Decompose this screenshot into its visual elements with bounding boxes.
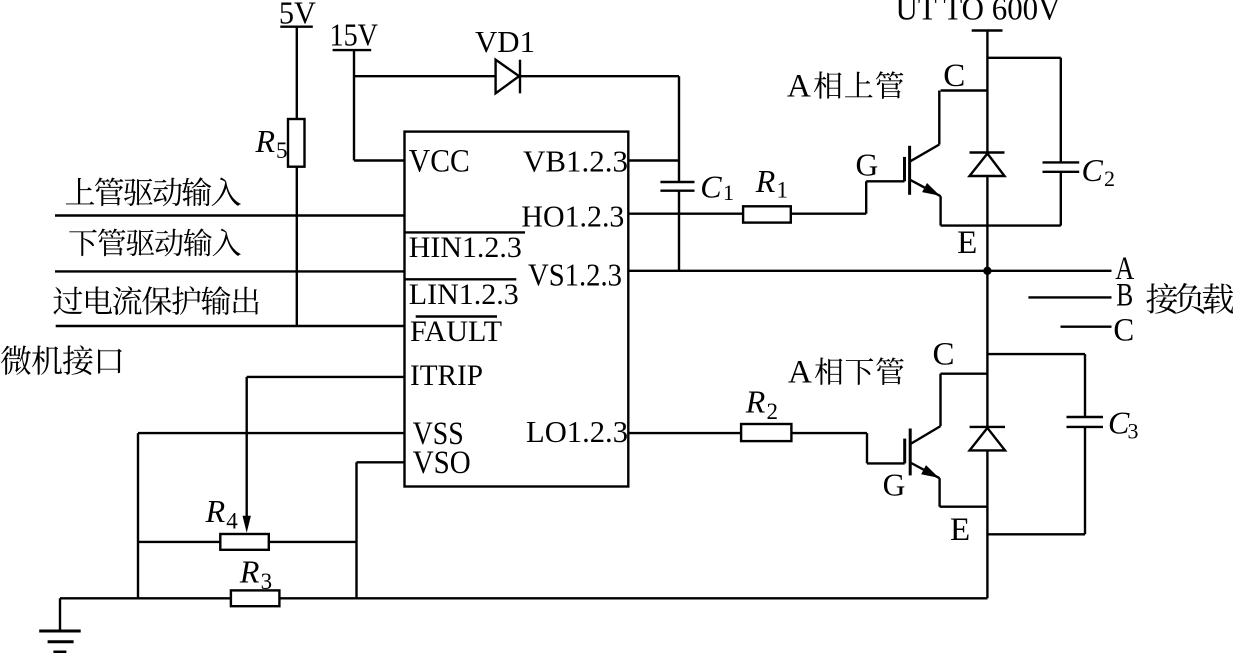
svg-text:15V: 15V (330, 17, 379, 53)
wire lower collector stub (941, 373, 988, 375)
svg-text:HIN1.2.3: HIN1.2.3 (409, 232, 522, 264)
svg-text:R: R (745, 384, 766, 420)
pin HIN1.2.3 (405, 232, 526, 264)
transistor lower IGBT (905, 374, 941, 507)
label C output (1113, 313, 1134, 349)
pin VSS (413, 416, 464, 452)
wire lower emitter stub (940, 506, 988, 508)
driver IC box (405, 132, 629, 487)
label G upper (856, 148, 879, 183)
pin VS1.2.3 (528, 257, 622, 293)
power rail 5V (279, 0, 316, 30)
wire ITRIP pin (247, 376, 405, 378)
power rail UT TO 600V (896, 0, 1061, 31)
wire R4 right (269, 541, 357, 543)
pin LIN1.2.3 (405, 279, 519, 311)
label A相下管 (788, 355, 904, 391)
wire 5V to R5 (296, 27, 298, 119)
pin LO1.2.3 (526, 414, 628, 449)
label A (1115, 251, 1134, 287)
svg-text:R: R (239, 554, 260, 590)
wire C1 to VS line (678, 191, 680, 271)
wire gate riser upper (866, 181, 904, 213)
pin HO1.2.3 (521, 199, 624, 234)
wire 15V branch to VD1 (354, 75, 496, 77)
capacitor C1 (660, 169, 734, 206)
resistor R5 (255, 119, 305, 167)
wire R5 to FAULT line (296, 167, 298, 326)
label A相上管 (787, 69, 903, 105)
wire bus diode to node A (986, 176, 988, 271)
wire FAULT output line (56, 325, 405, 327)
pin VB1.2.3 (523, 144, 628, 179)
svg-text:LIN1.2.3: LIN1.2.3 (409, 279, 519, 311)
power rail 15V (330, 17, 379, 53)
svg-text:C: C (1082, 152, 1104, 188)
wire VSO drop (355, 462, 357, 598)
svg-text:1: 1 (777, 178, 789, 203)
wire LO to R2 (628, 432, 741, 434)
wire VSO pin (357, 461, 405, 463)
svg-text:C: C (943, 58, 965, 94)
pin ITRIP (410, 360, 483, 392)
label 接负载 (1146, 283, 1233, 314)
wire node A to lower collector (986, 271, 988, 427)
svg-text:G: G (883, 468, 906, 503)
wire C3 branch bottom (987, 533, 1085, 535)
wire C2 branch top (987, 57, 1060, 59)
svg-text:G: G (856, 148, 879, 183)
svg-text:VS1.2.3: VS1.2.3 (528, 257, 622, 293)
svg-text:E: E (950, 512, 970, 548)
svg-text:VB1.2.3: VB1.2.3 (523, 144, 628, 179)
svg-text:VCC: VCC (409, 144, 470, 180)
svg-text:3: 3 (261, 569, 273, 594)
label 上管驱动输入 (66, 177, 241, 206)
resistor R2 (741, 384, 791, 442)
svg-text:UT TO 600V: UT TO 600V (896, 0, 1061, 28)
wire DC bus rail upper (986, 31, 988, 153)
wire HIN input line (55, 214, 405, 216)
svg-text:2: 2 (767, 399, 779, 424)
svg-text:VD1: VD1 (475, 24, 535, 59)
wire ground line left (60, 597, 231, 599)
diode VD1 (475, 24, 535, 93)
svg-text:R: R (755, 163, 776, 199)
svg-text:C: C (700, 169, 722, 205)
wire lower rail to ground line (986, 450, 988, 598)
label E lower (950, 512, 970, 548)
pin VSO (413, 445, 471, 481)
label C upper (943, 58, 965, 94)
node A junction dot (983, 267, 991, 275)
label 下管驱动输入 (69, 228, 241, 256)
svg-text:HO1.2.3: HO1.2.3 (521, 199, 624, 234)
wire ground line right (279, 597, 987, 599)
wire R2 to gate riser (791, 432, 867, 434)
wire C3 branch top (987, 353, 1085, 355)
freewheel diode lower (970, 427, 1005, 451)
label 过电流保护输出 (53, 286, 258, 315)
wire VSS pin (138, 432, 405, 434)
svg-text:E: E (957, 225, 977, 261)
svg-text:3: 3 (1128, 419, 1139, 444)
output line C (1061, 326, 1112, 328)
ground (39, 598, 80, 652)
wire HO to R1 (628, 212, 743, 214)
capacitor C3 (1067, 354, 1139, 534)
label 微机接口 (1, 345, 122, 375)
svg-text:A: A (788, 355, 812, 391)
label G lower (883, 468, 906, 503)
wire 15V to VCC pin (354, 159, 405, 161)
svg-text:4: 4 (226, 508, 238, 533)
pin FAULT (410, 316, 502, 348)
wire 15V down (353, 50, 355, 160)
wire VS1.2.3 phase A line (628, 270, 1111, 272)
svg-text:2: 2 (1104, 166, 1115, 191)
wire ITRIP drop with arrow (243, 377, 251, 533)
label B (1116, 278, 1133, 314)
capacitor C2 (1043, 58, 1116, 226)
transistor upper IGBT (905, 91, 941, 226)
resistor R4 (205, 493, 269, 550)
label E upper (957, 225, 977, 261)
freewheel diode upper (970, 153, 1005, 177)
svg-text:LO1.2.3: LO1.2.3 (526, 414, 628, 449)
svg-text:C: C (1113, 313, 1134, 349)
wire VB pin stub (628, 159, 679, 161)
svg-text:ITRIP: ITRIP (410, 360, 483, 392)
label C lower (933, 337, 955, 373)
svg-text:5: 5 (276, 138, 288, 163)
svg-text:1: 1 (723, 180, 734, 205)
wire R4 left (138, 541, 220, 543)
wire emitter rail upper (941, 224, 1061, 226)
resistor R3 (231, 554, 280, 607)
svg-text:R: R (205, 493, 226, 529)
wire LIN input line (55, 270, 405, 272)
wire collector to bus upper (941, 89, 988, 91)
wire VSS drop (137, 433, 139, 598)
svg-text:R: R (255, 123, 276, 159)
pin VCC (409, 144, 470, 180)
svg-text:A: A (787, 69, 811, 105)
svg-text:C: C (933, 337, 955, 373)
output line B (1028, 296, 1111, 298)
svg-text:FAULT: FAULT (410, 316, 502, 348)
svg-text:VSO: VSO (413, 445, 471, 481)
resistor R1 (743, 163, 791, 223)
wire R1 to gate riser (791, 212, 866, 214)
wire gate riser lower (867, 433, 905, 463)
svg-text:B: B (1116, 278, 1133, 314)
wire VD1 to bootstrap node (519, 76, 679, 182)
